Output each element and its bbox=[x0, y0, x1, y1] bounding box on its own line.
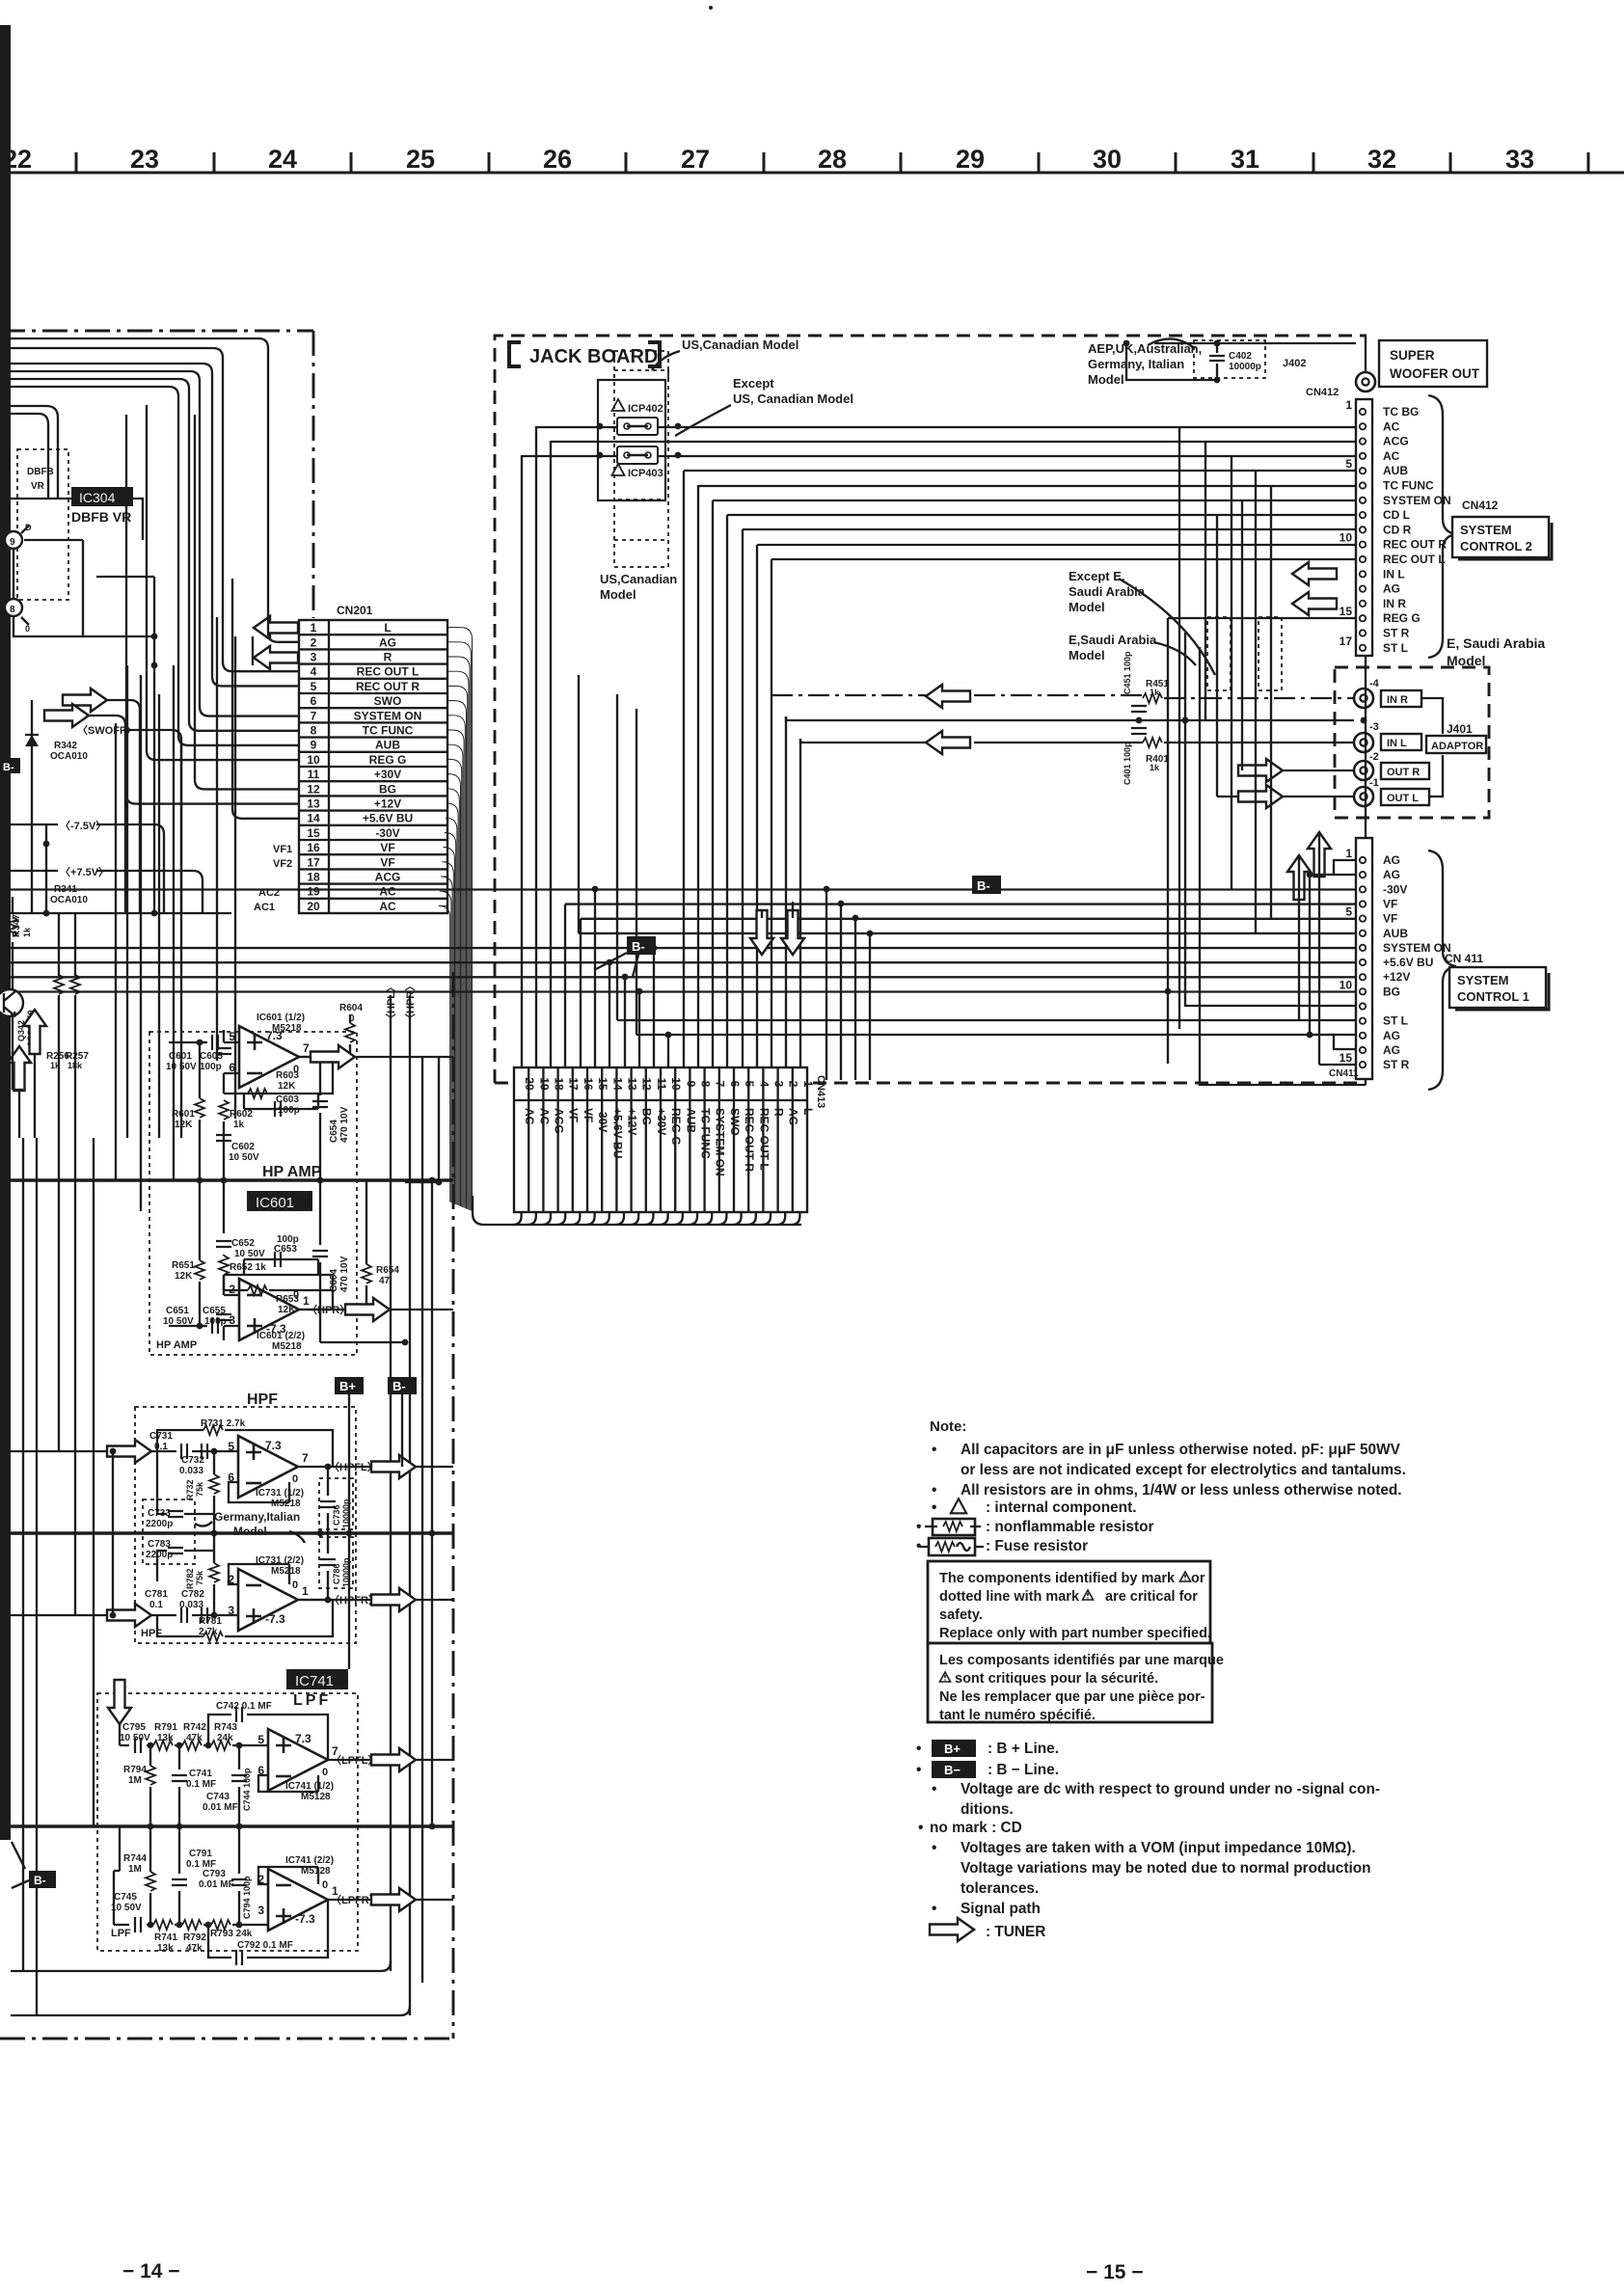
svg-text:10: 10 bbox=[1340, 978, 1353, 991]
op-amp IC731 2/2 bbox=[238, 1569, 298, 1631]
svg-text:0.01 MF: 0.01 MF bbox=[203, 1802, 238, 1813]
resistor R347 1k bbox=[8, 917, 17, 936]
svg-text:Model: Model bbox=[1069, 600, 1105, 614]
svg-text:AC: AC bbox=[537, 1108, 551, 1125]
page ruler scale bbox=[0, 145, 1624, 174]
net B- chip (left edge) bbox=[0, 758, 20, 773]
svg-text:VF1: VF1 bbox=[273, 844, 292, 855]
op-amp IC731 1/2 inverting input wire bbox=[229, 1482, 289, 1502]
svg-text:VR: VR bbox=[31, 481, 45, 492]
svg-text:R793 24k: R793 24k bbox=[210, 1929, 253, 1939]
svg-text:or: or bbox=[1191, 1571, 1205, 1586]
adaptor bracket wires bbox=[1421, 698, 1443, 797]
junction row at y 947 bbox=[11, 912, 231, 914]
svg-text:CN412: CN412 bbox=[1306, 387, 1339, 398]
svg-text:Germany, Italian: Germany, Italian bbox=[1088, 357, 1184, 371]
capacitor C781 0.1 bbox=[181, 1607, 187, 1623]
note: AEP,UK,Australian,Germany,Italian Model bbox=[1088, 341, 1202, 387]
svg-text:AC: AC bbox=[379, 900, 396, 913]
note: E,Saudi Arabia Model bbox=[1069, 633, 1157, 662]
resistors R256 / R257 bbox=[54, 975, 64, 994]
svg-text:C605: C605 bbox=[200, 1051, 223, 1062]
svg-text:AUB: AUB bbox=[1383, 927, 1408, 940]
svg-text:19: 19 bbox=[537, 1077, 551, 1091]
svg-text:6: 6 bbox=[311, 694, 317, 708]
capacitor C651 10 50V bbox=[212, 1318, 218, 1334]
svg-text:•: • bbox=[916, 1741, 921, 1757]
svg-text:3: 3 bbox=[311, 651, 317, 664]
svg-text:HP AMP: HP AMP bbox=[262, 1164, 322, 1180]
svg-text:C793: C793 bbox=[203, 1869, 226, 1879]
wire right column verticals (B+/B-) bbox=[349, 1057, 439, 1826]
svg-text:•: • bbox=[932, 1781, 936, 1797]
svg-text:R782: R782 bbox=[185, 1568, 195, 1589]
svg-text:7: 7 bbox=[302, 1451, 309, 1465]
wire feeds into CN413 middle cells bbox=[565, 890, 668, 1068]
svg-text:AG: AG bbox=[1383, 1029, 1400, 1042]
svg-text:C655: C655 bbox=[203, 1306, 226, 1316]
svg-text:AG: AG bbox=[787, 1108, 800, 1125]
svg-text:ST L: ST L bbox=[1383, 1014, 1408, 1028]
svg-text:R601: R601 bbox=[172, 1109, 195, 1120]
resistor R793 24k bbox=[211, 1920, 230, 1930]
svg-text:OCA010: OCA010 bbox=[50, 895, 88, 905]
svg-text:+12V: +12V bbox=[626, 1108, 639, 1135]
svg-text:25: 25 bbox=[406, 145, 435, 174]
svg-text:Signal path: Signal path bbox=[961, 1901, 1041, 1917]
svg-text:10 50V: 10 50V bbox=[229, 1152, 259, 1163]
svg-text:16: 16 bbox=[582, 1077, 595, 1091]
svg-text:+5.6V BU: +5.6V BU bbox=[363, 812, 413, 825]
svg-text:13k: 13k bbox=[157, 1733, 174, 1743]
svg-text:SYSTEM: SYSTEM bbox=[1457, 973, 1508, 987]
svg-text:CONTROL 2: CONTROL 2 bbox=[1460, 539, 1532, 554]
note: Except E, Saudi Arabia Model bbox=[1069, 569, 1146, 614]
svg-text:C792 0.1 MF: C792 0.1 MF bbox=[237, 1940, 293, 1951]
svg-text:17: 17 bbox=[567, 1077, 581, 1091]
svg-text:M5218: M5218 bbox=[271, 1499, 301, 1509]
safety note box (French) bbox=[928, 1643, 1224, 1723]
svg-text:CONTROL 1: CONTROL 1 bbox=[1457, 989, 1529, 1004]
svg-text:HPF: HPF bbox=[141, 1628, 162, 1639]
net B- chip (mid) bbox=[627, 936, 656, 955]
svg-text:IC741: IC741 bbox=[295, 1673, 334, 1689]
svg-text:SWO: SWO bbox=[728, 1108, 742, 1136]
svg-text:SUPER: SUPER bbox=[1390, 348, 1435, 363]
resistor R654 47 bbox=[362, 1264, 371, 1283]
svg-text:-30V: -30V bbox=[375, 826, 399, 840]
svg-text:CN412: CN412 bbox=[1462, 499, 1499, 512]
svg-text:C782: C782 bbox=[181, 1589, 204, 1600]
protector ICP403 bbox=[597, 446, 682, 567]
svg-text:4: 4 bbox=[311, 665, 317, 679]
svg-text:OUT R: OUT R bbox=[1387, 767, 1420, 778]
svg-text:CN201: CN201 bbox=[337, 604, 373, 617]
svg-text:10: 10 bbox=[307, 753, 320, 767]
DBFB VR dotted block bbox=[17, 449, 68, 600]
wire risers from CN201 rows 10/12/13/14 bbox=[126, 405, 299, 819]
svg-text:-4: -4 bbox=[1369, 678, 1380, 689]
svg-text:HPF: HPF bbox=[247, 1391, 278, 1408]
svg-text:C604: C604 bbox=[329, 1269, 339, 1292]
net B- chip (HPF top) bbox=[388, 1377, 417, 1394]
svg-text:1k: 1k bbox=[22, 927, 32, 937]
svg-text:M5218: M5218 bbox=[271, 1566, 301, 1577]
main board dash-dot border (right vertical) bbox=[452, 972, 455, 2039]
signal arrow right (second) bbox=[44, 704, 89, 727]
svg-text:: nonflammable resistor: : nonflammable resistor bbox=[986, 1519, 1153, 1535]
wire rounded corners at DBFB block bbox=[11, 406, 143, 540]
capacitor C736 10000p dashed bbox=[319, 1478, 353, 1529]
wire verticals into CN413 bbox=[522, 426, 800, 1067]
svg-text:2: 2 bbox=[787, 1081, 800, 1088]
connector CN412 bbox=[1306, 387, 1451, 656]
svg-text:SWO: SWO bbox=[374, 694, 402, 708]
svg-text:23: 23 bbox=[130, 145, 159, 174]
svg-text:-2: -2 bbox=[1369, 751, 1379, 763]
capacitor C655 100p bbox=[216, 1314, 231, 1320]
wire left column verticals bbox=[13, 636, 253, 2015]
svg-text:7: 7 bbox=[303, 1041, 310, 1055]
svg-text:AG: AG bbox=[1383, 1043, 1400, 1057]
svg-text:C603: C603 bbox=[276, 1094, 299, 1105]
svg-text:B-: B- bbox=[392, 1379, 406, 1393]
svg-text:1: 1 bbox=[302, 1584, 309, 1598]
svg-text:B-: B- bbox=[3, 762, 14, 773]
svg-text:CD L: CD L bbox=[1383, 508, 1410, 522]
svg-text:0.1 MF: 0.1 MF bbox=[186, 1779, 216, 1790]
capacitor C786 10000p dashed bbox=[319, 1537, 353, 1588]
svg-text:CN 411: CN 411 bbox=[1445, 952, 1483, 965]
svg-text:75k: 75k bbox=[195, 1570, 204, 1585]
svg-text:Except: Except bbox=[733, 376, 774, 391]
svg-text:IC731 (1/2): IC731 (1/2) bbox=[256, 1488, 304, 1499]
signal path TUNER arrow bbox=[930, 1918, 974, 1941]
signal arrows downward mid board bbox=[750, 910, 773, 955]
svg-text:-1: -1 bbox=[1369, 777, 1379, 789]
resistor R601 12K bbox=[195, 1098, 204, 1118]
svg-text:C791: C791 bbox=[189, 1849, 212, 1859]
svg-text:ST L: ST L bbox=[1383, 641, 1408, 655]
notes text block bbox=[916, 1418, 1406, 1554]
svg-text:18: 18 bbox=[553, 1077, 566, 1091]
bus line mid LPF bbox=[11, 1824, 453, 1828]
svg-text:26: 26 bbox=[543, 145, 572, 174]
bus line mid HPF bbox=[11, 1531, 453, 1535]
svg-text:R: R bbox=[772, 1108, 786, 1117]
svg-text:C401 100p: C401 100p bbox=[1123, 742, 1132, 785]
svg-text:0: 0 bbox=[322, 1879, 328, 1891]
svg-text:30: 30 bbox=[1093, 145, 1122, 174]
svg-text:or less are not indicated exce: or less are not indicated except for ele… bbox=[961, 1462, 1406, 1478]
svg-text:ICP402: ICP402 bbox=[628, 403, 663, 415]
brace for CN411 SYSTEM CONTROL 1 bbox=[1428, 851, 1456, 1090]
svg-text:E,Saudi Arabia: E,Saudi Arabia bbox=[1069, 633, 1157, 647]
wire verticals left column block bbox=[116, 617, 235, 1211]
svg-text:no mark : CD: no mark : CD bbox=[930, 1820, 1022, 1836]
capacitor C652 10 50V bbox=[216, 1241, 231, 1247]
svg-text:24: 24 bbox=[268, 145, 297, 174]
signal arrow on IN L line bbox=[926, 731, 970, 754]
resistor R794 1M bbox=[146, 1766, 155, 1785]
jack J402 bbox=[1356, 372, 1375, 392]
svg-text:〈HPR〉: 〈HPR〉 bbox=[307, 1304, 350, 1316]
svg-text:dotted line with mark: dotted line with mark bbox=[939, 1589, 1080, 1605]
svg-text:REC OUT R: REC OUT R bbox=[743, 1108, 756, 1172]
capacitor C602 10 50V bbox=[216, 1135, 231, 1141]
svg-text:Model: Model bbox=[233, 1525, 267, 1538]
safety note box (English) bbox=[928, 1561, 1211, 1643]
LPF L input chain wire bbox=[120, 1724, 268, 1745]
signal arrow right (top) bbox=[63, 689, 107, 712]
svg-text:32: 32 bbox=[1367, 145, 1396, 174]
svg-text:AUB: AUB bbox=[375, 739, 400, 752]
connector CN413 bbox=[514, 1067, 826, 1212]
resistor R742 47k bbox=[182, 1741, 202, 1750]
svg-text:100p: 100p bbox=[277, 1234, 299, 1245]
net B+ chip bbox=[335, 1377, 364, 1394]
capacitor C791 0.1 MF bbox=[172, 1879, 187, 1885]
svg-text:3: 3 bbox=[257, 1904, 264, 1917]
svg-text:10: 10 bbox=[1340, 531, 1353, 545]
svg-text:Replace only with part number: Replace only with part number specified. bbox=[939, 1626, 1211, 1641]
svg-text:R791: R791 bbox=[154, 1722, 177, 1733]
svg-text:R742: R742 bbox=[183, 1722, 206, 1733]
svg-text:AG: AG bbox=[379, 635, 396, 649]
IC pin 8 bbox=[5, 599, 22, 616]
svg-text:HP AMP: HP AMP bbox=[156, 1339, 197, 1351]
box SUPER WOOFER OUT bbox=[1379, 340, 1487, 387]
wire bus under CN413 bbox=[473, 1196, 801, 1225]
svg-text:ditions.: ditions. bbox=[961, 1801, 1014, 1818]
svg-text:2: 2 bbox=[311, 635, 317, 649]
svg-text:12K: 12K bbox=[175, 1271, 193, 1282]
main board dash-dot border (vertical at x=325) bbox=[312, 331, 315, 618]
svg-text:B-: B- bbox=[34, 1874, 46, 1887]
svg-text:14: 14 bbox=[307, 812, 320, 825]
op-amp IC741 1/2 bbox=[268, 1729, 328, 1791]
svg-text:Voltage variations may be note: Voltage variations may be noted due to n… bbox=[961, 1860, 1371, 1877]
wire bottom return lines bbox=[11, 1961, 410, 2015]
svg-text:11: 11 bbox=[655, 1078, 668, 1091]
svg-text:E, Saudi Arabia: E, Saudi Arabia bbox=[1447, 635, 1545, 651]
svg-text:Voltage are dc with respect to: Voltage are dc with respect to ground un… bbox=[961, 1781, 1380, 1797]
capacitor C601 10 50V bbox=[212, 1035, 218, 1050]
capacitor C732 0.033 bbox=[202, 1444, 207, 1459]
svg-text:R603: R603 bbox=[276, 1070, 299, 1081]
wires to IN R / IN L jacks bbox=[771, 695, 1354, 743]
svg-text:R792: R792 bbox=[183, 1932, 206, 1943]
svg-text:31: 31 bbox=[1231, 145, 1259, 174]
svg-text:SYSTEM ON: SYSTEM ON bbox=[714, 1108, 727, 1176]
svg-text:C654: C654 bbox=[329, 1120, 339, 1143]
capacitor C794 100p bbox=[231, 1879, 247, 1885]
wire CN412 ST R / ST L down to CN411 bbox=[1185, 633, 1356, 1006]
svg-text:15: 15 bbox=[1340, 1051, 1353, 1065]
signal arrow HP out R bbox=[345, 1298, 390, 1321]
signal arrow on IN R line bbox=[926, 685, 970, 708]
svg-text:7: 7 bbox=[311, 709, 317, 722]
alt path dashed boxes (E,Saudi) bbox=[1207, 617, 1231, 690]
svg-text:17: 17 bbox=[307, 855, 320, 869]
svg-text:tolerances.: tolerances. bbox=[961, 1880, 1039, 1897]
svg-text:8: 8 bbox=[311, 724, 317, 738]
svg-text:All capacitors are in μF unles: All capacitors are in μF unless otherwis… bbox=[961, 1442, 1401, 1458]
svg-text:IC601: IC601 bbox=[256, 1195, 294, 1211]
signal arrow HP out L bbox=[311, 1045, 355, 1068]
svg-text:: B − Line.: : B − Line. bbox=[988, 1762, 1059, 1778]
svg-text:JACK BOARD: JACK BOARD bbox=[529, 346, 658, 367]
svg-text:IC601 (1/2): IC601 (1/2) bbox=[257, 1013, 305, 1023]
svg-text:7: 7 bbox=[714, 1081, 727, 1088]
svg-text:L: L bbox=[801, 1108, 815, 1115]
svg-text:C786: C786 bbox=[332, 1563, 341, 1584]
svg-text:tant le numéro spécifié.: tant le numéro spécifié. bbox=[939, 1708, 1096, 1723]
wire bus into CN411 bbox=[11, 890, 1356, 992]
capacitor C795 10 50V bbox=[135, 1738, 141, 1753]
net B+ chip (legend) bbox=[932, 1740, 976, 1757]
svg-text:ST R: ST R bbox=[1383, 1058, 1410, 1071]
svg-text:IC601 (2/2): IC601 (2/2) bbox=[257, 1331, 305, 1341]
jack J401-4 IN R bbox=[1354, 689, 1373, 708]
svg-text:B-: B- bbox=[632, 939, 645, 954]
svg-text:REG G: REG G bbox=[1383, 611, 1421, 625]
svg-text:: TUNER: : TUNER bbox=[986, 1924, 1045, 1940]
svg-text:VSS: VSS bbox=[0, 573, 9, 590]
svg-text:1: 1 bbox=[1345, 847, 1352, 860]
svg-text:4: 4 bbox=[757, 1081, 771, 1088]
svg-text:•: • bbox=[932, 1901, 936, 1917]
svg-text:J401: J401 bbox=[1447, 722, 1473, 736]
svg-text:AC: AC bbox=[523, 1108, 536, 1125]
jack J401-3 IN L bbox=[1354, 733, 1373, 752]
svg-text:AC: AC bbox=[379, 885, 396, 899]
E,Saudi Arabia Model text (right) bbox=[1447, 635, 1545, 668]
svg-text:28: 28 bbox=[818, 145, 847, 174]
svg-text:: Fuse resistor: : Fuse resistor bbox=[986, 1538, 1088, 1554]
svg-text:TC FUNC: TC FUNC bbox=[1383, 479, 1434, 493]
svg-text:AUB: AUB bbox=[1383, 464, 1408, 477]
wire bundle top-left (merges into CN201 rows) bbox=[11, 338, 299, 745]
svg-text:15: 15 bbox=[307, 826, 320, 840]
svg-text:19: 19 bbox=[307, 885, 320, 899]
svg-text:0: 0 bbox=[292, 1580, 298, 1591]
svg-text:SYSTEM ON: SYSTEM ON bbox=[1383, 941, 1451, 955]
svg-text:The components identified by m: The components identified by mark bbox=[939, 1571, 1176, 1586]
svg-text:9: 9 bbox=[10, 537, 15, 548]
svg-text:5: 5 bbox=[257, 1733, 264, 1746]
svg-text:12K: 12K bbox=[278, 1081, 296, 1092]
capacitor C605 100p bbox=[216, 1048, 231, 1054]
svg-text:+30V: +30V bbox=[655, 1108, 668, 1135]
IC601 label chip bbox=[247, 1191, 312, 1211]
svg-text:2200p: 2200p bbox=[146, 1519, 173, 1529]
svg-text:12K: 12K bbox=[278, 1305, 296, 1315]
stray dot top bbox=[709, 6, 713, 10]
svg-text:C744 100p: C744 100p bbox=[242, 1768, 252, 1811]
svg-text:VF2: VF2 bbox=[273, 858, 292, 870]
svg-text:•: • bbox=[916, 1762, 921, 1778]
svg-text:-30V: -30V bbox=[596, 1108, 609, 1132]
svg-text:0: 0 bbox=[25, 624, 30, 634]
svg-text:10 50V: 10 50V bbox=[120, 1733, 150, 1743]
internal component triangle symbol bbox=[951, 1499, 966, 1513]
svg-text:− 14 −: − 14 − bbox=[122, 2260, 180, 2282]
signal arrow up (left column) bbox=[23, 1010, 46, 1054]
capacitor C654 470 10V bbox=[312, 1101, 328, 1107]
main board dash-dot border (bottom) bbox=[0, 2038, 453, 2040]
op-amp IC601 2/2 bbox=[239, 1279, 299, 1340]
svg-text:C601: C601 bbox=[169, 1051, 192, 1062]
svg-text:3: 3 bbox=[772, 1081, 786, 1088]
svg-text:VF: VF bbox=[567, 1108, 581, 1122]
wire into J402 bbox=[1154, 336, 1366, 372]
svg-text:Model: Model bbox=[1088, 372, 1124, 387]
svg-text:R342: R342 bbox=[54, 741, 77, 751]
op-amp IC601 1/2 input/output wires bbox=[169, 1030, 453, 1094]
box SYSTEM CONTROL 1 bbox=[1449, 967, 1549, 1010]
svg-text:BG: BG bbox=[640, 1108, 654, 1125]
resistor R652 1k bbox=[219, 1256, 229, 1275]
svg-text:: internal component.: : internal component. bbox=[986, 1499, 1136, 1516]
svg-text:+5.6V BU: +5.6V BU bbox=[1383, 956, 1433, 969]
input arrow HPF L bbox=[107, 1440, 151, 1463]
svg-text:14: 14 bbox=[610, 1077, 624, 1091]
svg-text:DBFB: DBFB bbox=[27, 467, 54, 477]
svg-text:27: 27 bbox=[681, 145, 710, 174]
brace for CN412 SYSTEM CONTROL 2 bbox=[1428, 395, 1456, 658]
svg-text:+30V: +30V bbox=[374, 768, 401, 781]
svg-text:BG: BG bbox=[379, 782, 396, 796]
resistor R732 75k bbox=[209, 1474, 219, 1494]
svg-text:R741: R741 bbox=[154, 1932, 177, 1943]
svg-text:•: • bbox=[918, 1820, 923, 1836]
LPF R input chain wire bbox=[114, 1826, 268, 1925]
svg-text:VF: VF bbox=[1383, 898, 1397, 911]
signal arrow into CN201 pin 3 bbox=[254, 646, 298, 669]
resistor R791 13k bbox=[153, 1741, 173, 1750]
svg-text:REC OUT L: REC OUT L bbox=[757, 1108, 771, 1171]
svg-text:R: R bbox=[384, 651, 392, 664]
net B- chip (bottom left) bbox=[29, 1871, 56, 1888]
svg-text:10 50V: 10 50V bbox=[163, 1316, 194, 1327]
resistor R401 1k bbox=[1143, 738, 1162, 747]
net B- chip (legend) bbox=[932, 1761, 976, 1778]
svg-text:C402: C402 bbox=[1229, 351, 1252, 362]
jack J401-2 OUT R bbox=[1354, 761, 1373, 780]
svg-text:IN L: IN L bbox=[1387, 738, 1407, 749]
svg-text:C732: C732 bbox=[181, 1455, 204, 1466]
signal arrow into CN412 IN R bbox=[1292, 592, 1337, 615]
svg-text:REC OUT L: REC OUT L bbox=[357, 665, 420, 679]
svg-text:0.033: 0.033 bbox=[179, 1600, 203, 1610]
svg-text:B+: B+ bbox=[339, 1379, 356, 1393]
svg-text:13: 13 bbox=[626, 1077, 639, 1091]
svg-text:VF: VF bbox=[582, 1108, 595, 1122]
input arrow HPF R bbox=[107, 1604, 151, 1627]
svg-text:SYSTEM ON: SYSTEM ON bbox=[354, 709, 422, 722]
box ADAPTOR bbox=[1426, 736, 1486, 753]
svg-text:5: 5 bbox=[743, 1081, 756, 1088]
wire bus into CN412 bbox=[522, 427, 1355, 559]
svg-text:AUB: AUB bbox=[684, 1108, 697, 1133]
svg-text:C652: C652 bbox=[231, 1238, 255, 1249]
svg-text:ACG: ACG bbox=[375, 871, 401, 884]
svg-text:-7.3: -7.3 bbox=[265, 1612, 285, 1626]
svg-text:R654: R654 bbox=[376, 1265, 399, 1276]
svg-text:AG: AG bbox=[1383, 582, 1400, 596]
svg-text:Voltages are taken with a VOM: Voltages are taken with a VOM (input imp… bbox=[961, 1840, 1356, 1856]
